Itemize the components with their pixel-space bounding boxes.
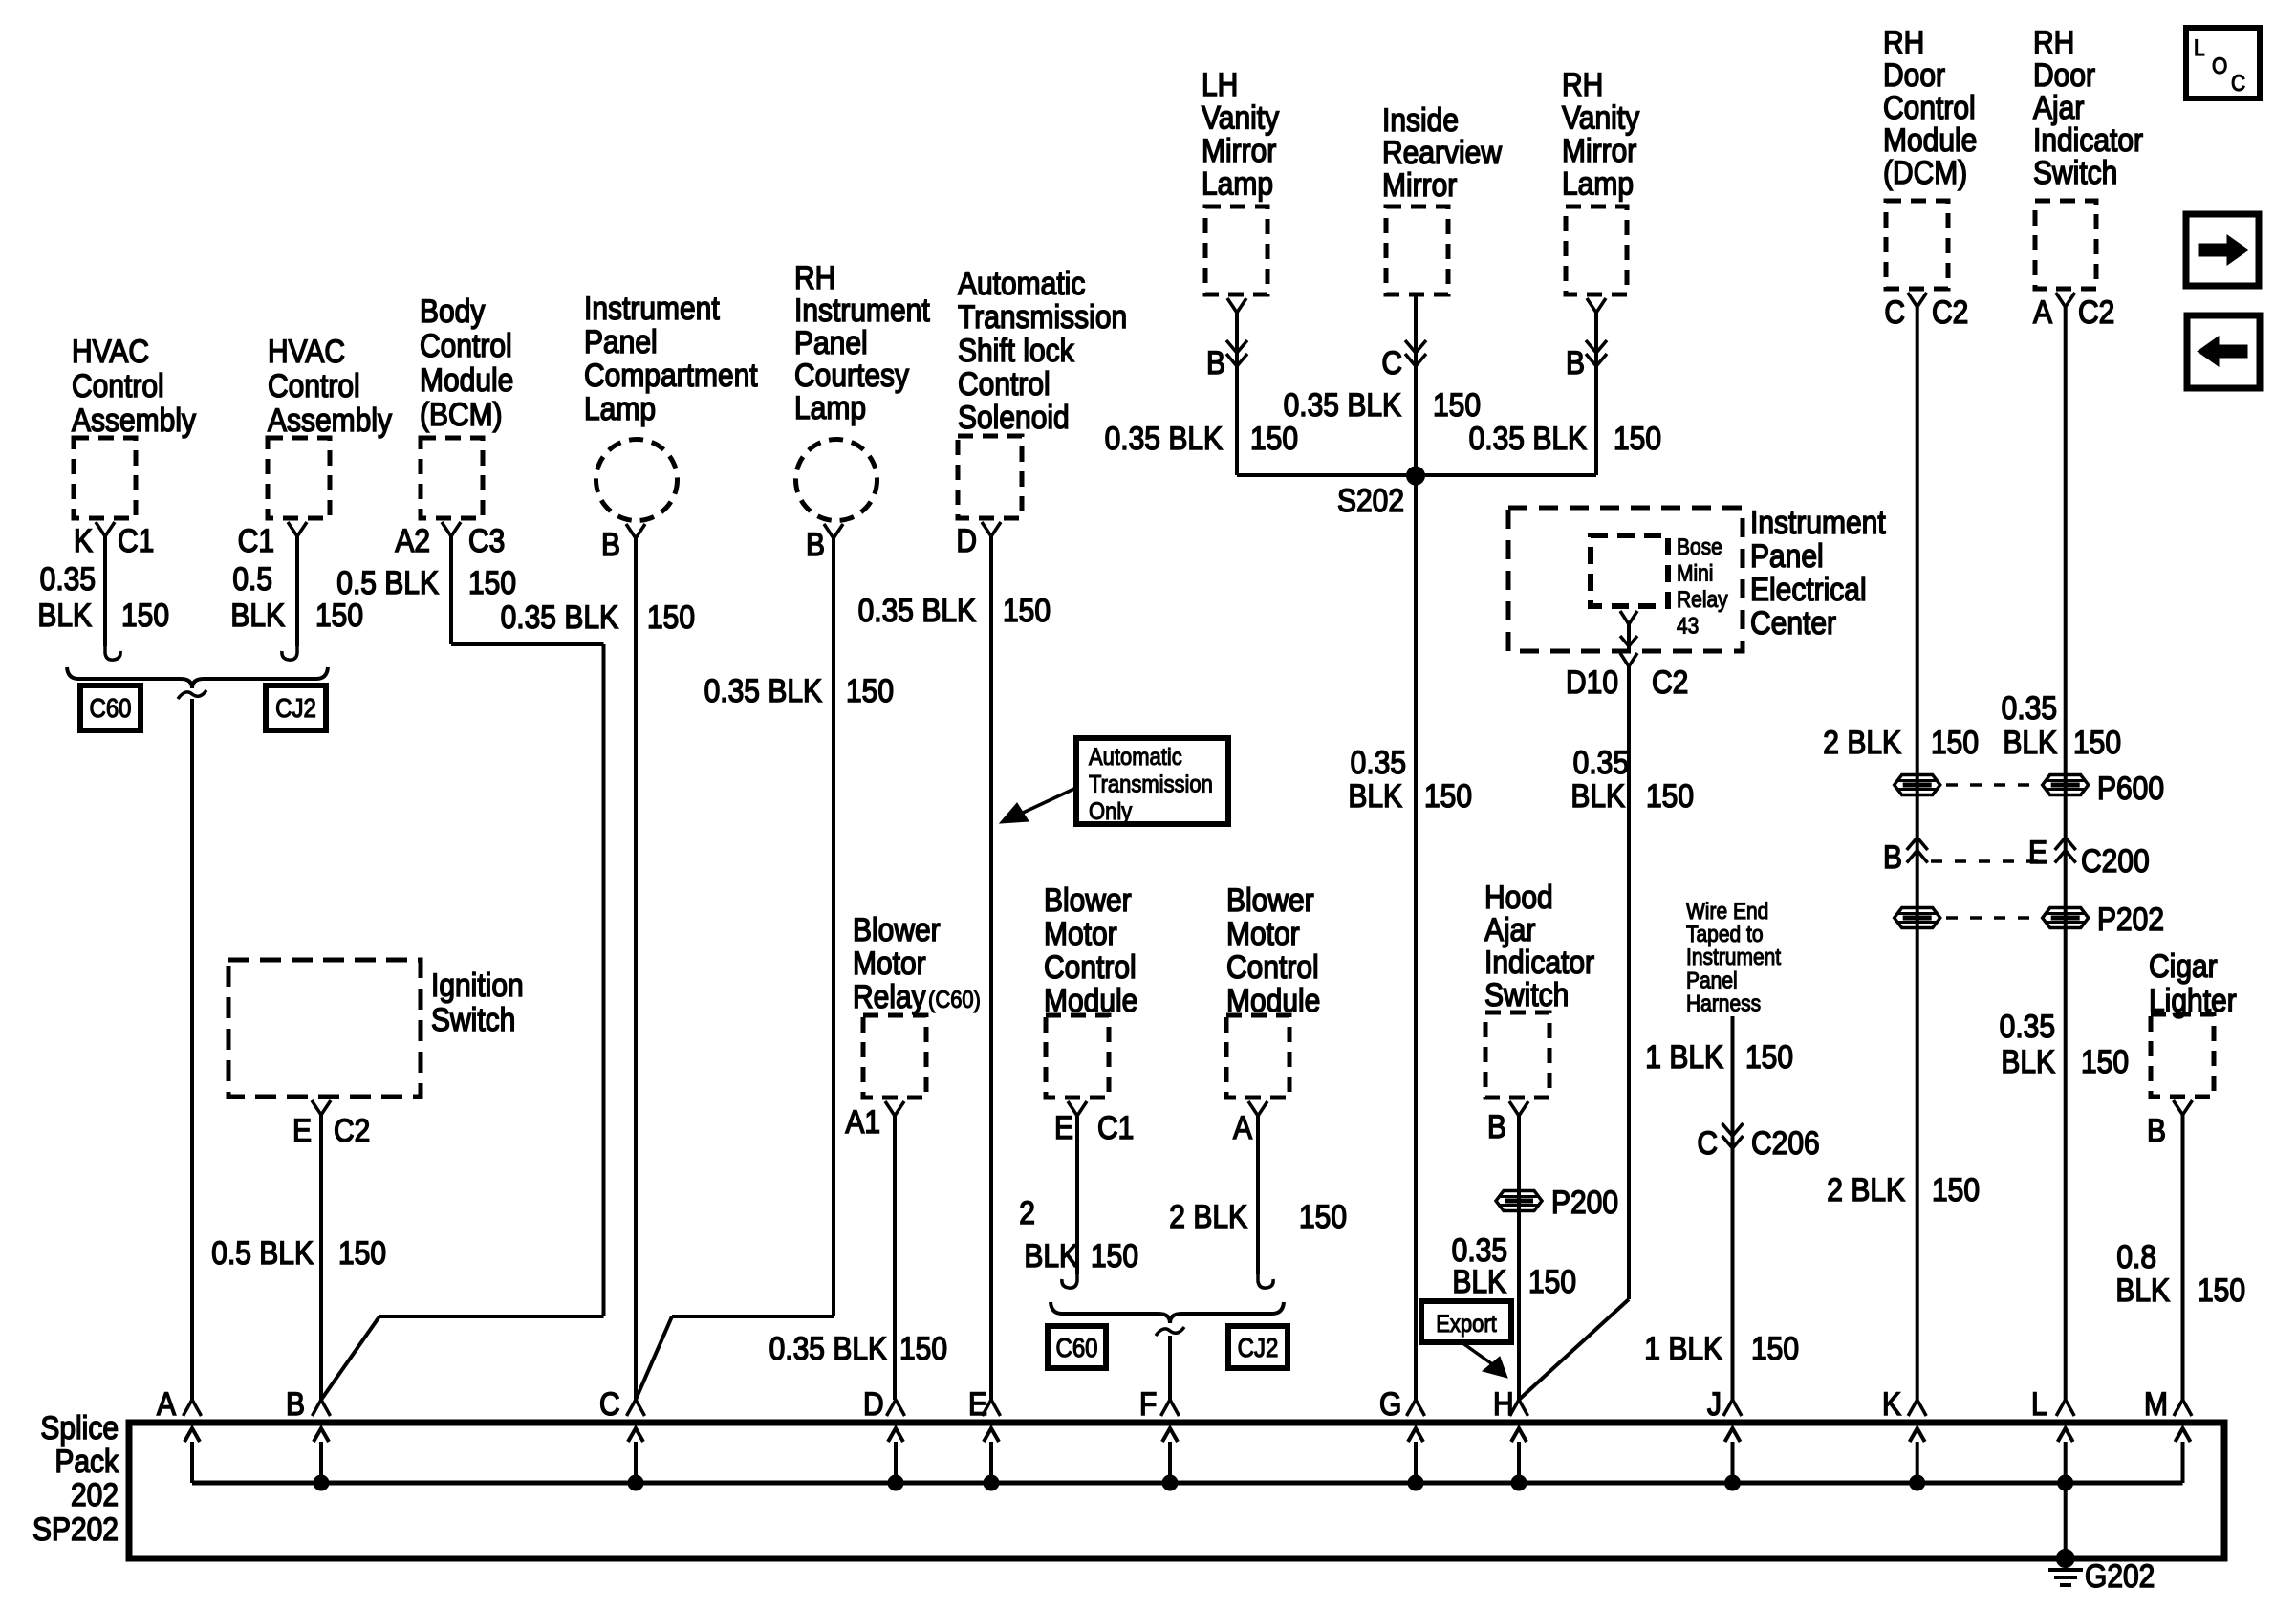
svg-text:Assembly: Assembly	[268, 402, 393, 438]
svg-text:150: 150	[1931, 724, 1979, 760]
svg-text:Blower: Blower	[1226, 881, 1314, 918]
svg-text:Door: Door	[1883, 56, 1945, 93]
svg-text:Blower: Blower	[853, 911, 941, 947]
svg-text:0.35: 0.35	[1351, 744, 1406, 780]
svg-text:L: L	[2031, 1385, 2047, 1422]
svg-text:Center: Center	[1750, 604, 1836, 641]
svg-text:Relay: Relay	[1677, 587, 1728, 613]
svg-text:Body: Body	[420, 293, 486, 329]
svg-text:150: 150	[1528, 1263, 1576, 1299]
svg-text:43: 43	[1677, 613, 1699, 639]
svg-text:BLK: BLK	[37, 597, 92, 633]
svg-text:Indicator: Indicator	[2033, 121, 2143, 158]
svg-text:2 BLK: 2 BLK	[1169, 1198, 1247, 1234]
svg-text:Control: Control	[1883, 89, 1976, 125]
svg-text:C200: C200	[2081, 842, 2150, 879]
svg-text:0.35: 0.35	[1573, 744, 1629, 780]
svg-text:(DCM): (DCM)	[1883, 154, 1967, 190]
svg-text:Control: Control	[268, 367, 360, 403]
svg-text:150: 150	[647, 598, 695, 635]
svg-text:Transmission: Transmission	[958, 298, 1127, 335]
svg-text:Lamp: Lamp	[794, 389, 866, 425]
svg-text:0.8: 0.8	[2116, 1238, 2156, 1274]
svg-text:Control: Control	[958, 365, 1051, 402]
svg-text:0.35 BLK: 0.35 BLK	[501, 598, 619, 635]
svg-text:S202: S202	[1337, 482, 1404, 518]
svg-text:BLK: BLK	[1024, 1237, 1078, 1273]
svg-text:150: 150	[1433, 386, 1481, 423]
svg-text:150: 150	[1751, 1330, 1799, 1366]
svg-text:F: F	[1139, 1385, 1157, 1422]
svg-text:150: 150	[2081, 1043, 2129, 1079]
svg-text:Hood: Hood	[1484, 879, 1553, 915]
svg-text:B: B	[286, 1385, 305, 1422]
svg-text:E: E	[968, 1385, 987, 1422]
svg-text:Motor: Motor	[1044, 915, 1117, 951]
svg-text:150: 150	[1250, 420, 1298, 456]
svg-text:Control: Control	[1226, 948, 1319, 985]
svg-text:BLK: BLK	[1348, 777, 1402, 814]
svg-text:150: 150	[1003, 592, 1051, 628]
svg-text:A: A	[2033, 294, 2052, 330]
svg-text:P200: P200	[1551, 1184, 1618, 1220]
svg-text:C: C	[1884, 294, 1905, 330]
svg-text:L: L	[2194, 35, 2205, 61]
svg-text:Automatic: Automatic	[958, 265, 1085, 301]
svg-text:Inside: Inside	[1382, 101, 1459, 138]
svg-text:Transmission: Transmission	[1089, 772, 1213, 798]
svg-text:G: G	[1379, 1385, 1401, 1422]
svg-text:1 BLK: 1 BLK	[1644, 1330, 1722, 1366]
svg-text:M: M	[2144, 1385, 2168, 1422]
svg-text:0.5: 0.5	[232, 560, 272, 597]
svg-text:B: B	[1487, 1108, 1506, 1144]
svg-text:Bose: Bose	[1677, 534, 1722, 560]
svg-text:Instrument: Instrument	[794, 292, 930, 328]
svg-text:Panel: Panel	[1750, 537, 1824, 574]
svg-text:150: 150	[1745, 1038, 1793, 1075]
svg-text:150: 150	[1614, 420, 1661, 456]
svg-text:Relay: Relay	[853, 978, 926, 1014]
svg-text:Ajar: Ajar	[1484, 911, 1536, 947]
svg-text:202: 202	[71, 1476, 119, 1512]
svg-text:Vanity: Vanity	[1562, 99, 1640, 136]
svg-text:0.5 BLK: 0.5 BLK	[211, 1234, 314, 1271]
svg-text:A: A	[1233, 1109, 1252, 1145]
svg-text:Electrical: Electrical	[1750, 571, 1867, 607]
svg-text:Module: Module	[420, 361, 513, 398]
svg-text:150: 150	[315, 597, 363, 633]
svg-text:Rearview: Rearview	[1382, 134, 1503, 170]
svg-text:Panel: Panel	[584, 323, 658, 359]
svg-text:Compartment: Compartment	[584, 357, 758, 393]
svg-text:Indicator: Indicator	[1484, 944, 1594, 980]
svg-text:0.35: 0.35	[2000, 1008, 2055, 1044]
svg-text:Vanity: Vanity	[1202, 99, 1280, 136]
svg-text:Pack: Pack	[54, 1443, 119, 1479]
svg-text:C2: C2	[1652, 664, 1688, 700]
svg-text:BLK: BLK	[1452, 1263, 1506, 1299]
svg-text:150: 150	[338, 1234, 386, 1271]
svg-text:RH: RH	[2033, 24, 2074, 60]
svg-text:Splice: Splice	[40, 1409, 119, 1446]
svg-text:0.35 BLK: 0.35 BLK	[769, 1330, 888, 1366]
svg-text:O: O	[2212, 54, 2227, 79]
svg-text:0.35 BLK: 0.35 BLK	[858, 592, 977, 628]
svg-text:C1: C1	[238, 522, 274, 558]
svg-text:150: 150	[1424, 777, 1472, 814]
svg-text:Control: Control	[72, 367, 164, 403]
svg-text:BLK: BLK	[1570, 777, 1625, 814]
svg-text:Switch: Switch	[431, 1001, 515, 1037]
svg-text:G202: G202	[2085, 1557, 2155, 1594]
svg-text:Instrument: Instrument	[584, 290, 720, 326]
svg-text:Lamp: Lamp	[1562, 165, 1634, 202]
svg-text:C2: C2	[1932, 294, 1968, 330]
svg-text:Instrument: Instrument	[1750, 504, 1886, 540]
svg-text:Automatic: Automatic	[1089, 745, 1182, 772]
svg-text:Lamp: Lamp	[584, 390, 656, 426]
svg-text:B: B	[1566, 344, 1585, 381]
svg-text:B: B	[601, 526, 620, 562]
svg-text:J: J	[1707, 1385, 1722, 1422]
svg-text:Ignition: Ignition	[431, 967, 524, 1003]
svg-text:RH: RH	[794, 259, 835, 295]
svg-text:D: D	[956, 522, 977, 558]
svg-text:CJ2: CJ2	[275, 695, 316, 724]
svg-text:(C60): (C60)	[928, 988, 981, 1014]
svg-text:Motor: Motor	[853, 945, 926, 981]
svg-text:150: 150	[2073, 724, 2121, 760]
svg-text:Harness: Harness	[1686, 990, 1761, 1016]
svg-text:Wire End: Wire End	[1686, 899, 1768, 925]
svg-text:Module: Module	[1883, 121, 1977, 158]
svg-text:Mirror: Mirror	[1382, 166, 1457, 203]
svg-text:Panel: Panel	[794, 324, 868, 360]
svg-text:150: 150	[899, 1330, 947, 1366]
svg-text:B: B	[806, 526, 825, 562]
svg-text:C60: C60	[1055, 1335, 1097, 1363]
svg-text:E: E	[1054, 1109, 1073, 1145]
svg-text:H: H	[1493, 1385, 1514, 1422]
svg-text:0.35 BLK: 0.35 BLK	[1105, 420, 1224, 456]
svg-text:K: K	[74, 522, 93, 558]
svg-text:150: 150	[2198, 1272, 2245, 1308]
svg-text:C2: C2	[2078, 294, 2114, 330]
svg-text:B: B	[1206, 344, 1225, 381]
svg-text:Panel: Panel	[1686, 968, 1738, 993]
svg-text:C2: C2	[334, 1112, 370, 1148]
svg-text:RH: RH	[1883, 24, 1924, 60]
svg-text:D: D	[863, 1385, 884, 1422]
svg-text:Export: Export	[1436, 1312, 1497, 1338]
svg-text:K: K	[1882, 1385, 1901, 1422]
svg-text:C206: C206	[1751, 1124, 1820, 1161]
svg-text:Lamp: Lamp	[1202, 165, 1273, 202]
svg-text:Mini: Mini	[1677, 560, 1713, 586]
svg-text:Instrument: Instrument	[1686, 945, 1782, 970]
svg-text:E: E	[2028, 834, 2047, 870]
svg-text:Only: Only	[1089, 799, 1132, 826]
svg-text:150: 150	[121, 597, 169, 633]
svg-text:C: C	[599, 1385, 620, 1422]
svg-text:150: 150	[1299, 1198, 1347, 1234]
svg-text:RH: RH	[1562, 66, 1603, 102]
svg-text:HVAC: HVAC	[72, 333, 149, 369]
svg-text:1 BLK: 1 BLK	[1645, 1038, 1723, 1075]
svg-text:BLK: BLK	[2001, 1043, 2055, 1079]
svg-text:0.35 BLK: 0.35 BLK	[704, 672, 823, 708]
svg-text:BLK: BLK	[2115, 1272, 2170, 1308]
svg-text:BLK: BLK	[2003, 724, 2057, 760]
svg-text:C: C	[1381, 344, 1402, 381]
svg-text:Ajar: Ajar	[2033, 89, 2085, 125]
svg-text:C1: C1	[118, 522, 154, 558]
svg-text:Solenoid: Solenoid	[958, 399, 1070, 435]
svg-text:Control: Control	[420, 327, 512, 363]
svg-text:0.5 BLK: 0.5 BLK	[336, 564, 439, 600]
svg-text:150: 150	[1646, 777, 1694, 814]
svg-text:Switch: Switch	[1484, 976, 1569, 1012]
svg-text:E: E	[292, 1112, 312, 1148]
svg-text:C: C	[2231, 71, 2245, 97]
svg-text:Control: Control	[1044, 948, 1137, 985]
svg-text:C1: C1	[1097, 1109, 1134, 1145]
svg-text:Mirror: Mirror	[1202, 132, 1276, 168]
svg-text:0.35: 0.35	[40, 560, 96, 597]
svg-text:2 BLK: 2 BLK	[1827, 1171, 1905, 1207]
svg-text:(BCM): (BCM)	[420, 396, 503, 432]
svg-text:150: 150	[1091, 1237, 1138, 1273]
svg-text:D10: D10	[1566, 664, 1618, 700]
svg-text:0.35 BLK: 0.35 BLK	[1469, 420, 1588, 456]
svg-text:C: C	[1697, 1124, 1718, 1161]
svg-text:Assembly: Assembly	[72, 402, 197, 438]
svg-text:HVAC: HVAC	[268, 333, 345, 369]
svg-text:B: B	[2147, 1112, 2166, 1148]
svg-text:B: B	[1883, 838, 1902, 875]
svg-text:P600: P600	[2097, 770, 2164, 806]
svg-text:150: 150	[468, 564, 516, 600]
svg-text:CJ2: CJ2	[1238, 1335, 1279, 1363]
svg-text:150: 150	[1932, 1171, 1980, 1207]
svg-text:BLK: BLK	[230, 597, 285, 633]
svg-text:Shift lock: Shift lock	[958, 332, 1074, 368]
svg-text:A2: A2	[395, 522, 430, 558]
svg-text:P202: P202	[2097, 901, 2164, 937]
svg-text:Courtesy: Courtesy	[794, 357, 910, 393]
svg-text:LH: LH	[1202, 66, 1238, 102]
svg-text:0.35: 0.35	[2002, 689, 2057, 726]
svg-text:2: 2	[1019, 1194, 1035, 1230]
svg-text:Motor: Motor	[1226, 915, 1300, 951]
svg-text:Door: Door	[2033, 56, 2095, 93]
svg-text:SP202: SP202	[32, 1511, 119, 1547]
svg-text:C60: C60	[89, 695, 131, 724]
svg-text:C3: C3	[468, 522, 505, 558]
svg-text:2 BLK: 2 BLK	[1823, 724, 1901, 760]
svg-text:Cigar: Cigar	[2149, 947, 2218, 984]
svg-text:A1: A1	[845, 1103, 880, 1140]
svg-text:Mirror: Mirror	[1562, 132, 1636, 168]
svg-text:A: A	[157, 1385, 176, 1422]
svg-text:Blower: Blower	[1044, 881, 1132, 918]
svg-text:Taped to: Taped to	[1686, 922, 1764, 947]
svg-text:150: 150	[846, 672, 894, 708]
svg-text:Switch: Switch	[2033, 154, 2117, 190]
svg-text:0.35 BLK: 0.35 BLK	[1284, 386, 1402, 423]
